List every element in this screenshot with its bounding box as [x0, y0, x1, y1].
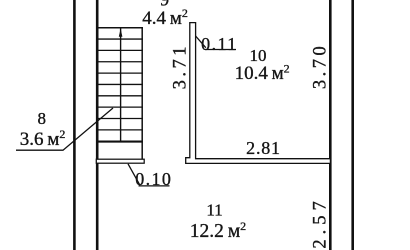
svg-text:3.71: 3.71 — [171, 43, 191, 89]
svg-text:2.81: 2.81 — [246, 138, 281, 158]
interior wall: vertical partition with foot + horizontal wall band — [186, 23, 331, 164]
staircase top line — [96, 27, 143, 29]
staircase bottom line — [96, 141, 143, 143]
right inner wall line — [329, 0, 332, 250]
leader line for 0.11 — [196, 36, 206, 48]
0.11 underline — [205, 49, 236, 51]
0.10 underline — [139, 185, 170, 187]
stair steps — [96, 39, 143, 130]
leader line for room 8 label — [16, 108, 113, 150]
svg-text:8: 8 — [38, 109, 47, 128]
left outer wall line — [73, 0, 76, 250]
staircase right edge — [141, 27, 143, 160]
svg-text:10.4 м2: 10.4 м2 — [235, 61, 290, 84]
svg-text:10: 10 — [250, 46, 267, 65]
svg-text:11: 11 — [206, 201, 222, 220]
staircase middle line — [120, 28, 122, 142]
svg-text:0.10: 0.10 — [135, 169, 172, 189]
leader line for 0.10 — [128, 164, 140, 186]
svg-text:2.57: 2.57 — [311, 196, 331, 248]
landing bar wall segment — [96, 159, 144, 163]
right outer wall line — [351, 0, 354, 250]
left inner wall line — [96, 0, 99, 250]
svg-text:12.2 м2: 12.2 м2 — [190, 219, 246, 242]
svg-text:0.11: 0.11 — [201, 34, 237, 54]
stair direction arrow — [119, 29, 123, 37]
svg-text:3.70: 3.70 — [310, 43, 330, 89]
svg-text:3.6 м2: 3.6 м2 — [20, 127, 66, 150]
svg-text:4.4 м2: 4.4 м2 — [142, 6, 188, 29]
